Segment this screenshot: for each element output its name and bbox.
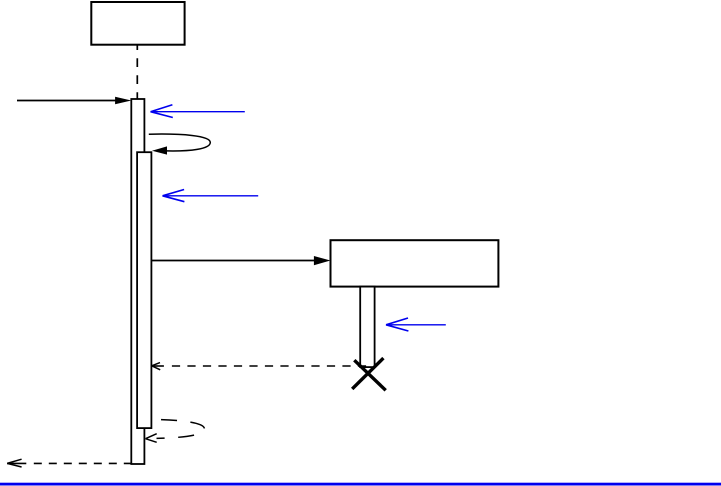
found message arrow into activation A1 xyxy=(17,97,131,104)
destruction X on O2 lifeline xyxy=(352,358,386,390)
annotation arrow 1 (blue) xyxy=(151,105,245,118)
lifeline of O1 (dashed) xyxy=(136,45,138,98)
annotation arrow 2 (blue) xyxy=(163,190,259,202)
object box O1 (top) xyxy=(91,2,184,45)
object box O2 (right) xyxy=(331,240,499,286)
self-return dashed loop on A1 xyxy=(146,420,205,443)
blue footer rule xyxy=(0,483,721,486)
annotation arrow 3 (blue) xyxy=(386,318,446,331)
activation bar A1 xyxy=(131,99,144,464)
self-call message loop on A1 xyxy=(149,134,211,155)
activation bar A3 on O2 xyxy=(360,287,374,368)
activation bar A2 (nested) xyxy=(137,152,151,428)
return message (dashed) exiting left xyxy=(7,459,131,467)
creation message arrow to O2 xyxy=(151,256,330,265)
return message (dashed) from O2 to A2 xyxy=(152,363,369,370)
